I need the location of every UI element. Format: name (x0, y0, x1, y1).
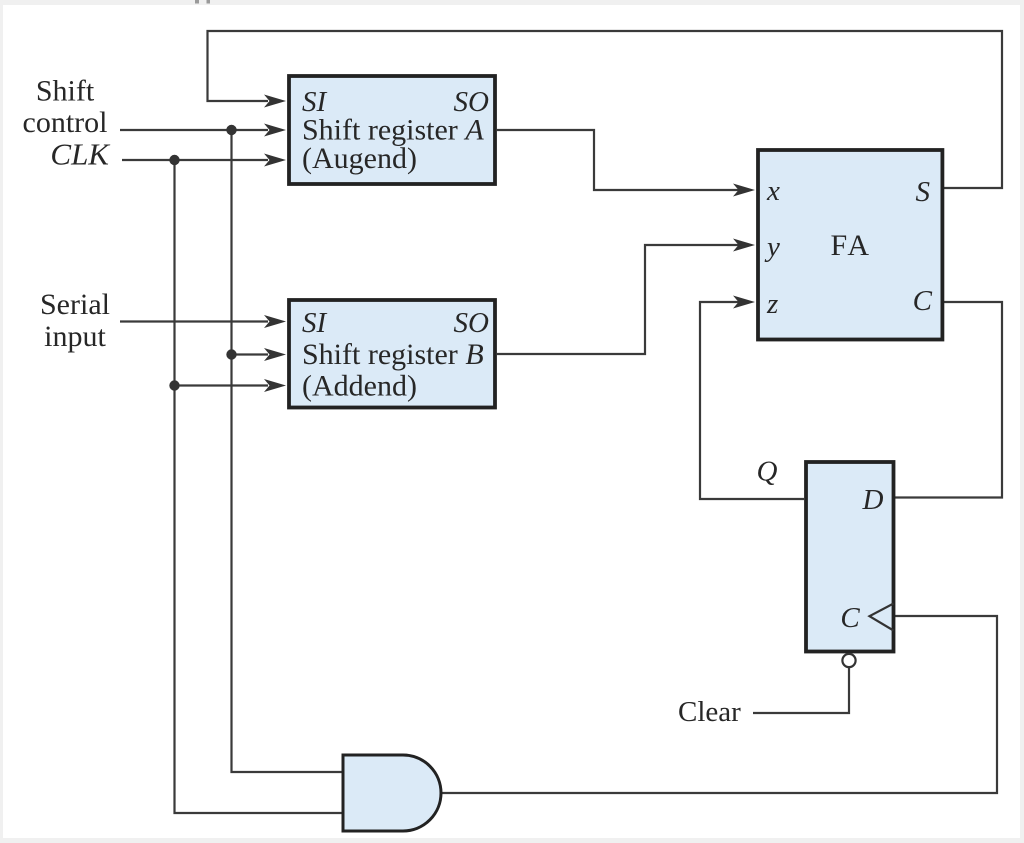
D flip-flop block (806, 462, 894, 652)
svg-text:FA: FA (830, 229, 871, 262)
svg-text:x: x (766, 175, 780, 207)
flip-flop clear bubble (842, 654, 855, 667)
wire: S output feedback (FA S to top rail to SI of A) (208, 31, 1003, 188)
flip-flop clock edge triangle (870, 604, 894, 631)
svg-text:z: z (766, 288, 778, 320)
arrowhead into A pin SI (264, 95, 286, 108)
junction dot CLK x174 (169, 155, 179, 165)
svg-text:Q: Q (757, 456, 778, 488)
arrowhead into FA pin y (733, 239, 755, 252)
svg-text:Shift register B: Shift register B (302, 338, 484, 371)
junction dot CLK to B (169, 380, 179, 390)
arrowhead into FA pin x (733, 184, 755, 197)
arrowhead into A pin (CLK) (264, 154, 286, 167)
arrowhead into A pin (shift control) (264, 124, 286, 137)
wire: Shift control vertical branch to AND gate (232, 130, 344, 772)
wire: Serial input to B (120, 320, 268, 322)
svg-text:CLK: CLK (50, 137, 111, 172)
wire: B SO to FA y (497, 245, 739, 354)
wire: Shift control branch to B (232, 353, 269, 355)
wire: CLK vertical branch to AND gate (175, 160, 344, 813)
shift register A block (289, 76, 495, 184)
arrowhead into B pin (shift control) (264, 348, 286, 361)
full adder FA block (758, 150, 942, 340)
svg-text:y: y (764, 231, 780, 263)
svg-text:control: control (23, 106, 108, 139)
junction dot shift control to B (226, 349, 236, 359)
svg-text:Shift: Shift (36, 75, 95, 108)
wire: Shift control to A (120, 129, 268, 131)
shift register B block (289, 300, 495, 408)
svg-text:D: D (862, 484, 884, 516)
svg-text:S: S (916, 176, 931, 208)
svg-text:SO: SO (454, 307, 490, 339)
wire: CLK to A (122, 159, 268, 161)
wire: CLK branch to B (175, 384, 269, 386)
junction dot shift control x231 (226, 125, 236, 135)
svg-text:(Addend): (Addend) (302, 370, 417, 403)
arrowhead into B pin SI (264, 315, 286, 328)
wire: A SO to FA x (497, 130, 739, 190)
wire: AND output to flip-flop clock C (441, 616, 997, 793)
svg-text:Serial: Serial (40, 288, 110, 321)
svg-text:C: C (913, 285, 933, 317)
svg-text:SI: SI (302, 307, 328, 339)
svg-text:Clear: Clear (678, 696, 741, 728)
arrowhead into FA pin z (733, 296, 755, 309)
wire: Clear to flip-flop bubble (753, 668, 849, 713)
svg-text:C: C (840, 602, 860, 634)
arrowhead into B pin (CLK) (264, 379, 286, 392)
AND gate (343, 755, 441, 831)
svg-text:(Augend): (Augend) (302, 142, 417, 175)
clipped caption fragment top (195, 0, 210, 4)
svg-text:input: input (44, 320, 106, 353)
wire: FA C to flip-flop D (895, 302, 1002, 498)
wire: flip-flop Q to FA z (700, 302, 804, 499)
